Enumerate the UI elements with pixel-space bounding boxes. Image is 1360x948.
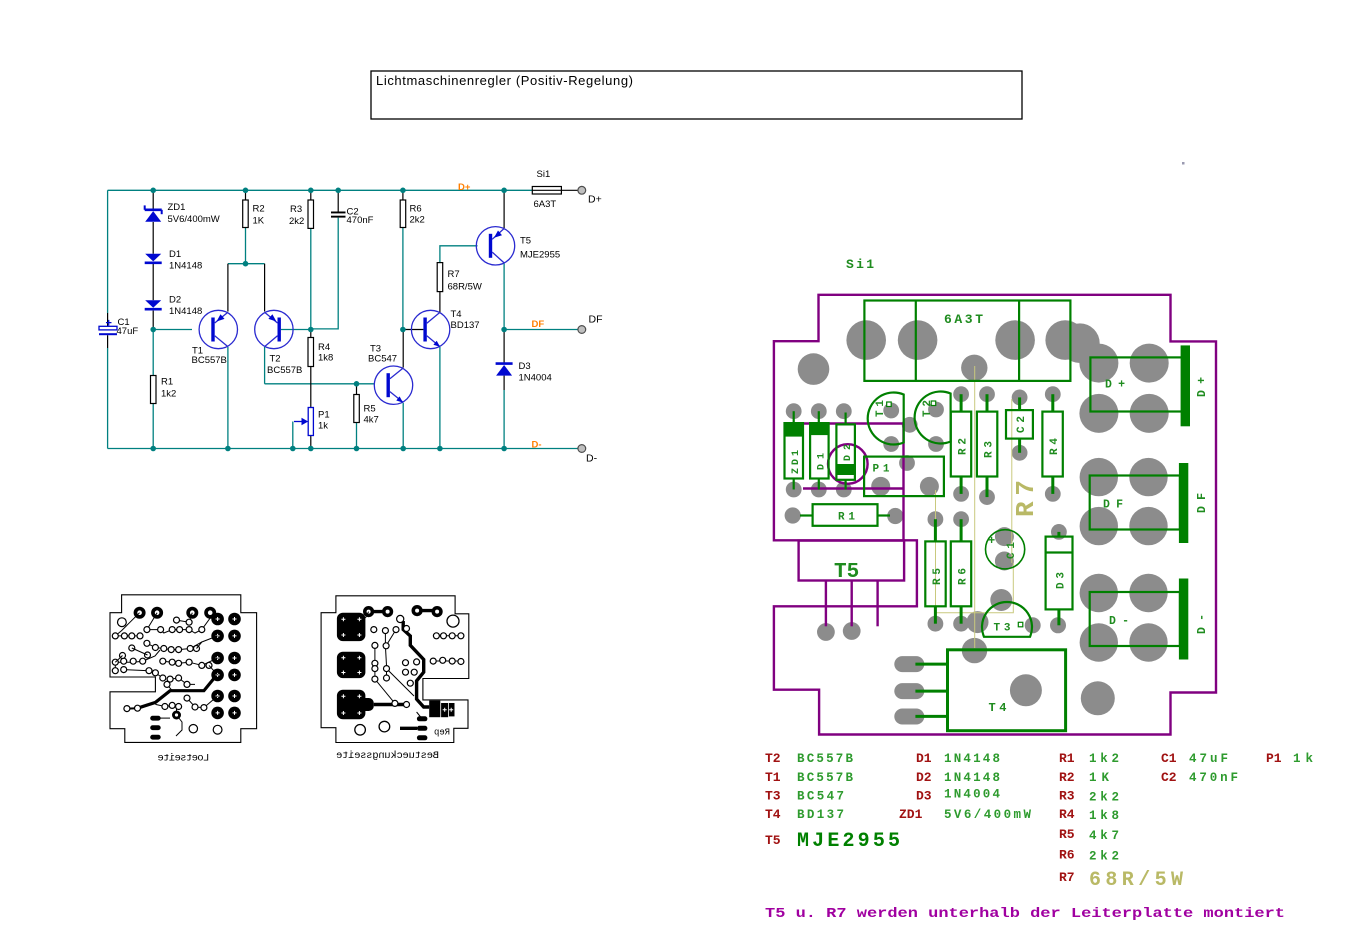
- big terminal pads right columns: [211, 613, 241, 720]
- node top rail at R3: [308, 188, 314, 194]
- wire fuse to D+ terminal: [561, 189, 578, 191]
- wire T2 collector down: [264, 347, 266, 384]
- wire T2 collector to T3 base: [265, 383, 375, 385]
- svg-text:2k2: 2k2: [1089, 850, 1119, 864]
- node bottom rail at P1 wiper: [290, 446, 296, 452]
- svg-text:Bestueckungsseite: Bestueckungsseite: [336, 750, 439, 762]
- svg-text:T5 u. R7 werden unterhalb der: T5 u. R7 werden unterhalb der Leiterplat…: [765, 907, 1285, 922]
- transistor T1 (pcb outline): [868, 393, 904, 445]
- node bottom rail at R5: [354, 446, 360, 452]
- round pad with hole: [172, 711, 181, 720]
- svg-text:T2: T2: [270, 354, 281, 365]
- resistor R6: [400, 200, 425, 228]
- svg-text:T5: T5: [520, 236, 531, 247]
- node top rail at C2: [335, 188, 341, 194]
- svg-text:2k2: 2k2: [1089, 791, 1119, 805]
- board outline (component side): [321, 596, 469, 743]
- outline transistor T5 (purple, under board): [799, 541, 905, 627]
- wire C2 bottom L to T2 base node: [311, 218, 338, 329]
- svg-text:470nF: 470nF: [347, 215, 374, 226]
- svg-text:2k2: 2k2: [289, 216, 304, 227]
- small ring pads: [112, 617, 207, 712]
- wire T2 emitter drop: [264, 264, 266, 312]
- svg-text:R2: R2: [253, 204, 265, 215]
- svg-text:R3: R3: [1059, 789, 1075, 804]
- diode D1 (pcb outline): [810, 411, 829, 489]
- copper trace (bottom, khaki) vertical center: [974, 366, 976, 648]
- top ring pads: [134, 607, 217, 619]
- svg-text:D3: D3: [519, 361, 531, 372]
- wire R6 top: [402, 190, 404, 200]
- node bottom rail at T3 emitter: [400, 446, 406, 452]
- wire DF node to D3: [503, 330, 505, 363]
- resistor R3: [289, 200, 314, 228]
- capacitor C1: [99, 317, 138, 337]
- node top rail at T5: [501, 188, 507, 194]
- oval pads (component side): [417, 716, 428, 740]
- svg-text:6A3T: 6A3T: [534, 199, 557, 210]
- node top rail at ZD1: [150, 188, 156, 194]
- transistor T4: [411, 309, 479, 349]
- wire junction to T1 base: [153, 329, 192, 331]
- svg-text:MJE2955: MJE2955: [797, 830, 900, 853]
- svg-text:ZD1: ZD1: [899, 807, 923, 822]
- svg-text:D+: D+: [458, 182, 471, 193]
- svg-text:R4: R4: [318, 342, 330, 353]
- potentiometer P1: [294, 408, 330, 436]
- svg-text:T5: T5: [834, 561, 859, 584]
- transistor T2 (pcb outline): [915, 392, 951, 444]
- terminal squares block: [429, 701, 454, 718]
- svg-text:Si1: Si1: [846, 257, 874, 272]
- resistor R5: [354, 395, 379, 426]
- small ring pads: [371, 615, 464, 707]
- wire D3 to bottom rail: [503, 376, 505, 390]
- wire R4 top from T2 base node: [310, 330, 312, 338]
- svg-text:R6: R6: [1059, 848, 1075, 863]
- svg-text:R2: R2: [1059, 770, 1075, 785]
- resistor R5 (pcb outline): [925, 519, 945, 624]
- svg-text:R7: R7: [448, 269, 460, 280]
- wire zener column through ZD1 D1 D2: [152, 190, 154, 209]
- wire D2 junction to R1: [152, 330, 154, 376]
- wire C2 top: [337, 190, 339, 211]
- node top rail at R2: [243, 188, 249, 194]
- node bottom rail at R1: [150, 446, 156, 452]
- node D2 R1 T1 base: [150, 327, 156, 333]
- svg-text:1k8: 1k8: [1089, 809, 1119, 823]
- svg-text:Loetseite: Loetseite: [157, 753, 209, 765]
- svg-text:+: +: [106, 318, 112, 330]
- resistor R2: [243, 200, 265, 228]
- svg-text:2k2: 2k2: [410, 215, 425, 226]
- wire R6 bottom to T4 base node: [402, 228, 404, 330]
- connector D+: [1090, 345, 1209, 426]
- wire T1 collector to bottom rail: [227, 347, 229, 449]
- wire R5 top: [356, 384, 358, 395]
- svg-text:P1: P1: [1266, 751, 1282, 766]
- node top rail at R6: [400, 188, 406, 194]
- capacitor C2: [331, 207, 374, 227]
- pcb pads: fuse row: [798, 320, 1100, 385]
- svg-text:T2: T2: [765, 751, 781, 766]
- svg-text:ZD1: ZD1: [168, 202, 186, 213]
- resistor R6 (pcb outline): [951, 519, 971, 624]
- board outline (purple): [774, 295, 1216, 735]
- node R6 T3 collector T4 base: [400, 327, 406, 333]
- pcb pads: D- block: [1080, 574, 1168, 716]
- wire P1 wiper drop: [292, 422, 294, 449]
- big pad cluster 1: [337, 613, 366, 641]
- board outline (solder side): [110, 595, 257, 743]
- wire DF rail: [504, 329, 578, 331]
- svg-text:R3: R3: [290, 204, 302, 215]
- wire R2 bottom to emitter node: [245, 228, 247, 264]
- resistor R3 (pcb outline): [977, 394, 997, 497]
- svg-text:1N4148: 1N4148: [169, 261, 202, 272]
- mount hole rings: [189, 725, 197, 733]
- wire left rail lower (C1 to D-): [107, 335, 109, 348]
- pcb pads: DF block: [1080, 458, 1168, 545]
- wire R4 bottom to P1: [310, 367, 312, 408]
- node bottom rail at T4 emitter: [437, 446, 443, 452]
- outline P1 circle (purple): [828, 444, 868, 484]
- svg-text:T3: T3: [765, 789, 781, 804]
- svg-text:DF: DF: [589, 314, 603, 326]
- wire top rail D+: [108, 189, 533, 191]
- diode D1: [145, 249, 203, 272]
- pcb pads: small component pads: [785, 386, 1067, 663]
- copper trace khaki L: [936, 490, 1014, 613]
- wire left rail upper (to C1): [107, 190, 109, 313]
- svg-text:1k2: 1k2: [1089, 752, 1119, 766]
- svg-text:Lichtmaschinenregler (Positiv-: Lichtmaschinenregler (Positiv-Regelung): [376, 73, 633, 88]
- trace purple T5 horizontal 1: [803, 422, 904, 424]
- resistor R4: [308, 338, 333, 367]
- wire T3 collector up to T4 base node: [402, 330, 404, 368]
- svg-text:1k2: 1k2: [161, 389, 176, 400]
- transistor T3 (pcb outline): [982, 602, 1032, 637]
- svg-text:BD137: BD137: [797, 808, 844, 822]
- capacitor C1 (pcb outline): [986, 530, 1025, 569]
- title box: [371, 71, 1022, 119]
- transistor T5: [476, 227, 560, 265]
- svg-text:4k7: 4k7: [364, 415, 379, 426]
- svg-text:T4: T4: [451, 309, 462, 320]
- zener ZD1 (pcb outline): [785, 411, 804, 489]
- terminal D+: [578, 186, 602, 205]
- node bottom rail at P1: [308, 446, 314, 452]
- svg-text:+: +: [988, 534, 995, 548]
- connector DF: [1090, 463, 1209, 543]
- resistor R1 (pcb outline): [800, 504, 890, 526]
- oval pads T4 (solder side): [150, 716, 161, 740]
- svg-text:5V6/400mW: 5V6/400mW: [944, 808, 1031, 822]
- svg-text:BC547: BC547: [368, 354, 397, 365]
- svg-text:BD137: BD137: [451, 320, 480, 331]
- resistor R1: [151, 376, 177, 404]
- svg-text:P1: P1: [318, 410, 330, 421]
- diode D3: [496, 361, 552, 384]
- resistor R4 (pcb outline): [1042, 394, 1062, 494]
- svg-text:5V6/400mW: 5V6/400mW: [168, 214, 220, 225]
- wire R2 top: [245, 190, 247, 200]
- pcb pads: D+ block: [1079, 344, 1168, 433]
- thin traces: [115, 613, 217, 736]
- diode D2: [145, 295, 203, 318]
- zener diode ZD1: [145, 202, 220, 225]
- trace purple T5 vertical: [902, 424, 904, 541]
- thick bottom trace: [400, 727, 417, 730]
- svg-text:D-: D-: [532, 440, 542, 451]
- top thick jumpers with ring pads: [363, 605, 443, 617]
- wire R7 top to T5 base bend: [440, 246, 478, 263]
- terminal DF: [578, 314, 603, 334]
- wire T2 base to node: [281, 329, 311, 331]
- svg-text:D-: D-: [586, 453, 598, 465]
- svg-text:4k7: 4k7: [1089, 829, 1119, 843]
- svg-text:R7: R7: [1059, 870, 1075, 885]
- svg-text:R5: R5: [364, 404, 376, 415]
- svg-text:R5: R5: [1059, 827, 1075, 842]
- svg-text:BC557B: BC557B: [267, 365, 302, 376]
- trace purple T5 horizontal 2: [803, 487, 904, 489]
- svg-text:D1: D1: [916, 751, 932, 766]
- transistor T3: [368, 344, 413, 405]
- terminal D-: [578, 445, 598, 465]
- node T2 base R3 C2 R4: [308, 327, 314, 333]
- svg-text:D+: D+: [588, 194, 602, 206]
- thick power trace: [138, 677, 216, 709]
- transistor T2: [255, 310, 303, 376]
- wire R3 bottom to T2 base node: [310, 228, 312, 329]
- fuse holder Si1 outline 6A3T: [864, 301, 1070, 381]
- svg-text:R6: R6: [410, 204, 422, 215]
- wire T4 collector to R7: [439, 292, 441, 313]
- pcb pads: T4 stadium pins: [894, 656, 1042, 724]
- svg-text:C1: C1: [1161, 751, 1177, 766]
- svg-text:Rep: Rep: [434, 728, 450, 738]
- diode D2 (pcb outline): [836, 413, 855, 490]
- svg-text:R4: R4: [1059, 807, 1075, 822]
- svg-text:MJE2955: MJE2955: [520, 250, 560, 261]
- svg-text:D2: D2: [916, 770, 932, 785]
- wire R1 to bottom rail: [152, 404, 154, 449]
- fuse Si1: [532, 169, 561, 210]
- svg-text:R1: R1: [1059, 751, 1075, 766]
- trimmer P1 (pcb outline): [864, 457, 944, 497]
- svg-text:T5: T5: [765, 833, 781, 848]
- big pad cluster 2: [337, 652, 366, 678]
- diode D3 (pcb outline): [1046, 532, 1073, 625]
- PCB artwork component side (Bestueckungsseite): [321, 596, 469, 762]
- wire T1 emitter drop: [227, 264, 229, 312]
- svg-text:1k8: 1k8: [318, 353, 333, 364]
- node T5 collector DF D3: [501, 327, 507, 333]
- svg-text:1N4004: 1N4004: [519, 373, 552, 384]
- wire R5 bottom: [356, 423, 358, 449]
- svg-text:D1: D1: [169, 249, 181, 260]
- wire T5 emitter up to top rail: [503, 190, 505, 228]
- thick stub to cluster3: [374, 703, 410, 706]
- wire T4 emitter to bottom rail: [439, 347, 441, 449]
- svg-text:1K: 1K: [253, 216, 265, 227]
- svg-text:T4: T4: [765, 807, 781, 822]
- wire emitter crossbar T1-T2: [228, 263, 265, 265]
- svg-text:47uF: 47uF: [117, 326, 139, 337]
- PCB artwork solder side (Loetseite): [110, 595, 257, 765]
- svg-text:1k: 1k: [318, 421, 328, 432]
- svg-text:68R/5W: 68R/5W: [448, 282, 482, 293]
- thin traces: [365, 612, 461, 719]
- resistor R2 (pcb outline): [951, 394, 971, 494]
- resistor R7: [437, 263, 482, 293]
- node bottom rail at D3: [501, 446, 507, 452]
- svg-text:Si1: Si1: [537, 169, 551, 180]
- wire T4 base node to T4: [403, 329, 424, 331]
- node bottom rail at T1 collector: [225, 446, 231, 452]
- wire bottom rail D-: [108, 448, 578, 450]
- transistor T1: [192, 310, 238, 366]
- copper trace khaki right: [1011, 399, 1013, 563]
- svg-text:470nF: 470nF: [1189, 771, 1238, 785]
- svg-text:R1: R1: [161, 377, 173, 388]
- wire T3 emitter to bottom rail: [402, 403, 404, 449]
- connector D-: [1090, 579, 1209, 660]
- mount hole rings (component side): [447, 615, 459, 627]
- thick meandering trace: [403, 621, 429, 707]
- svg-text:DF: DF: [532, 319, 545, 330]
- svg-text:BC557B: BC557B: [192, 355, 227, 366]
- svg-text:D3: D3: [916, 789, 932, 804]
- node R2 emitter junction: [243, 261, 249, 267]
- svg-text:1N4148: 1N4148: [169, 306, 202, 317]
- svg-text:C2: C2: [1161, 770, 1177, 785]
- node T3 base R5: [354, 381, 360, 387]
- svg-text:T1: T1: [765, 770, 781, 785]
- svg-text:ZD1: ZD1: [791, 450, 802, 474]
- wire T5 collector to DF node: [503, 264, 505, 330]
- transistor T4 (pcb outline): [915, 650, 1065, 731]
- svg-text:BC547: BC547: [797, 790, 844, 804]
- capacitor C2 (pcb outline): [1006, 397, 1033, 452]
- wire R3 top: [310, 190, 312, 200]
- stray dot: [1182, 162, 1185, 165]
- big pad cluster 3: [337, 690, 374, 720]
- svg-text:D2: D2: [169, 295, 181, 306]
- wire P1 bottom to rail: [310, 436, 312, 449]
